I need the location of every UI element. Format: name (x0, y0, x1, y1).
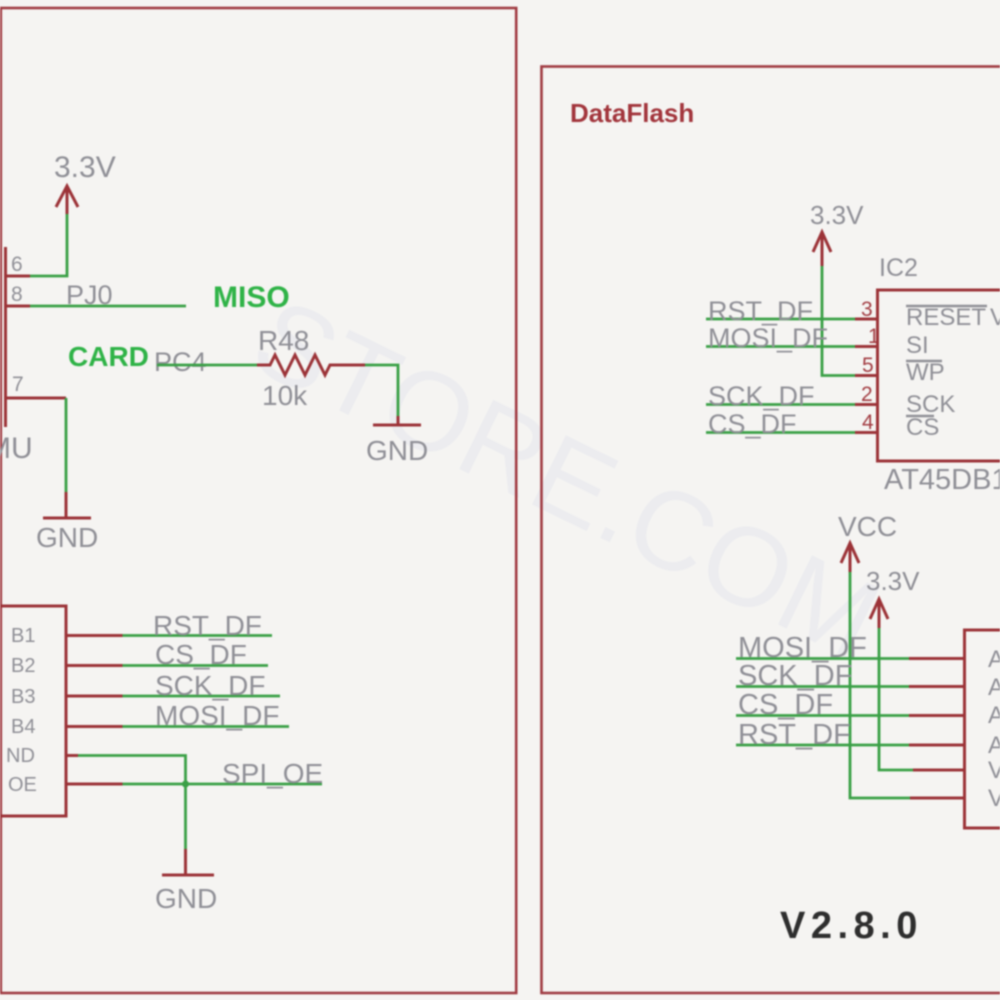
net label CARD PC4 (68, 341, 207, 377)
svg-text:CS_DF: CS_DF (738, 689, 833, 721)
pin A4 (IC3) (909, 744, 964, 747)
svg-text:6: 6 (11, 253, 23, 276)
wire MOSI_DF (IC2) (706, 323, 855, 353)
svg-text:B4: B4 (11, 716, 35, 738)
pin B2 (66, 664, 123, 667)
svg-text:SPI_OE: SPI_OE (222, 758, 323, 789)
pin 4 CS (855, 411, 877, 434)
watermark (235, 274, 898, 683)
wire SCK_DF (IC2) (706, 381, 855, 411)
power symbol VCC (838, 511, 897, 572)
wire VCC to IC3 (850, 572, 910, 798)
MCU pin 6 (6, 253, 30, 276)
svg-text:A: A (988, 732, 1000, 759)
svg-text:A: A (988, 646, 1000, 673)
title DataFlash (570, 98, 694, 128)
wire R48 to GND (365, 365, 398, 425)
MCU pin 7 (6, 373, 66, 398)
svg-text:DataFlash: DataFlash (570, 98, 694, 128)
svg-text:RST_DF: RST_DF (153, 610, 262, 641)
junction (GND/OE wires) (182, 781, 189, 788)
svg-text:V: V (988, 785, 1000, 812)
svg-text:ND: ND (6, 745, 35, 767)
pin 2 SCK (855, 383, 877, 406)
pin B3 (66, 695, 123, 698)
pin A2 (IC3) (909, 685, 964, 688)
svg-text:SI: SI (906, 332, 929, 359)
svg-text:3: 3 (861, 298, 873, 321)
pin 5 WP (855, 354, 877, 377)
pin B4 (66, 725, 123, 728)
pin A1 (IC3) (909, 657, 964, 660)
wire pin7 to GND (65, 398, 68, 518)
svg-text:OE: OE (8, 774, 37, 796)
wire SPI_OE (123, 758, 324, 789)
wire CS_DF (IC2) (706, 409, 855, 439)
svg-text:V: V (988, 757, 1000, 784)
power symbol 3.3V (bottom) (866, 566, 920, 628)
wire SCK_DF (IC3) (736, 660, 909, 692)
wire RST_DF (IC2) (706, 296, 855, 326)
resistor R48 10k (257, 325, 365, 411)
connector J1 (cut off at left edge) (0, 606, 66, 816)
svg-text:3.3V: 3.3V (810, 200, 864, 230)
svg-text:PC4: PC4 (154, 347, 207, 377)
wire CS_DF (IC3) (736, 689, 909, 721)
svg-text:B2: B2 (11, 655, 35, 677)
svg-text:B3: B3 (11, 686, 35, 708)
ground (connector) (155, 875, 217, 914)
svg-text:MOSI_DF: MOSI_DF (155, 700, 279, 731)
svg-text:CS: CS (906, 414, 939, 441)
svg-text:MISO: MISO (213, 281, 290, 314)
svg-text:8: 8 (11, 283, 23, 306)
wire MOSI_DF (connector) (123, 700, 290, 731)
power symbol 3.3V (DataFlash top) (810, 200, 864, 266)
svg-text:VCC: VCC (838, 511, 897, 542)
svg-text:MOSI_DF: MOSI_DF (708, 323, 828, 353)
svg-text:A: A (988, 702, 1000, 729)
svg-text:MU: MU (0, 432, 33, 465)
wire GND pin down to ground (78, 756, 186, 875)
svg-text:2: 2 (861, 383, 873, 406)
svg-text:SCK_DF: SCK_DF (738, 660, 852, 692)
MCU pin 8 (6, 283, 30, 306)
svg-text:3.3V: 3.3V (866, 566, 920, 596)
ground (right of R48) (366, 425, 428, 466)
svg-text:RST_DF: RST_DF (708, 296, 813, 326)
ground (pin7) (36, 518, 98, 553)
svg-text:GND: GND (366, 435, 428, 466)
pin VCC stub (IC3) (910, 797, 964, 800)
svg-text:IC2: IC2 (879, 254, 918, 282)
pin B1 (66, 634, 123, 637)
svg-text:B1: B1 (11, 625, 35, 647)
wire 3.3V to IC3 (879, 628, 913, 770)
svg-text:RESET: RESET (906, 304, 986, 331)
wire RST_DF (IC3) (736, 719, 909, 751)
pin GND (66, 754, 78, 757)
wire RST_DF (connector) (123, 610, 273, 641)
wire pin6 to 3.3V (30, 214, 67, 276)
svg-text:4: 4 (862, 411, 874, 434)
svg-text:SCK_DF: SCK_DF (708, 381, 815, 411)
svg-text:CARD: CARD (68, 341, 149, 372)
svg-text:SCK_DF: SCK_DF (155, 670, 265, 701)
svg-text:V2.8.0: V2.8.0 (780, 905, 923, 947)
svg-text:CS_DF: CS_DF (708, 409, 797, 439)
svg-text:R48: R48 (258, 325, 309, 356)
wire CS_DF (connector) (123, 639, 269, 670)
svg-text:RST_DF: RST_DF (738, 719, 851, 751)
svg-text:CS_DF: CS_DF (155, 639, 247, 670)
wire PJ0 / MISO net (30, 280, 186, 310)
MCU (cut off at left edge) (0, 247, 33, 465)
wire MOSI_DF (IC3) (736, 632, 909, 664)
svg-text:WP: WP (906, 359, 945, 386)
svg-text:3.3V: 3.3V (54, 151, 116, 184)
wire 3.3V to WP pin 5 (822, 266, 855, 376)
IC3 (cut off at right edge) (965, 630, 1000, 828)
power symbol 3.3V (left) (54, 151, 116, 214)
svg-text:A: A (988, 674, 1000, 701)
pin A3 (IC3) (909, 714, 964, 717)
pin 1 SI (855, 325, 880, 348)
svg-text:10k: 10k (262, 380, 308, 411)
wire SCK_DF (connector) (123, 670, 281, 701)
IC2 AT45DB16 DataFlash chip (878, 254, 1000, 496)
svg-text:GND: GND (155, 883, 217, 914)
svg-text:AT45DB16: AT45DB16 (884, 464, 1000, 496)
version label V2.8.0 (780, 905, 923, 947)
svg-text:5: 5 (862, 354, 874, 377)
svg-text:V: V (990, 304, 1000, 331)
svg-text:PJ0: PJ0 (66, 280, 113, 310)
pin 3.3V stub (IC3) (913, 769, 964, 772)
wire PC4 to R48 (157, 364, 257, 367)
svg-text:7: 7 (12, 373, 24, 396)
pin OE (66, 783, 123, 786)
net label MISO (213, 281, 290, 314)
svg-text:GND: GND (36, 522, 98, 553)
pin 3 RESET (855, 298, 877, 321)
